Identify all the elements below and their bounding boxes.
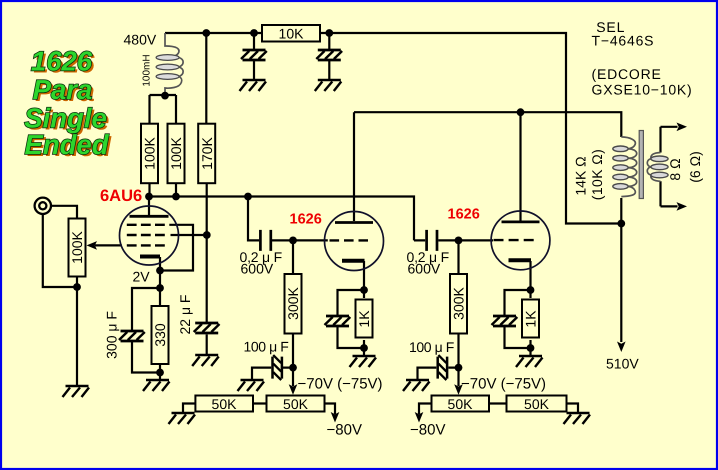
node top rail at cap1 [250,29,258,37]
ground under 22uF [192,355,219,366]
ground under 1626 no.1 cathode [350,356,377,367]
potentiometer 50K net2 left [432,396,490,412]
ground under filter cap 2 [315,80,342,91]
arrow -80V net2 [415,412,424,423]
svg-text:2V: 2V [133,269,151,285]
pot wiper arrow [87,241,98,250]
capacitor B+ filter 1 [241,50,267,60]
svg-text:510V: 510V [606,356,639,372]
svg-text:10K: 10K [279,25,305,41]
node pot bottom [73,283,81,291]
title text 1626 Para Single Ended [24,46,112,163]
wire input jack to pot [52,206,78,219]
grid g3 6AU6 [127,224,166,226]
svg-text:T−4646S: T−4646S [592,33,655,49]
tube envelope 1626 no.2 [491,211,550,270]
cathode 1626 no.1 [342,259,365,263]
capacitor 100uF bias no.1 [273,355,282,380]
ground net2 right [564,413,591,424]
resistor 100K no.1 plate load [141,124,158,184]
svg-text:−80V: −80V [327,422,362,439]
capacitor 0,2uF coupling no.2 [427,230,437,251]
node plate rail at 100K no.2 [172,193,180,201]
tube envelope 1626 no.1 [325,212,384,271]
ground under 330 [143,380,170,391]
svg-text:600V: 600V [241,261,274,277]
svg-text:8 Ω: 8 Ω [667,158,683,180]
svg-text:Ended: Ended [24,129,109,160]
wire g2 to screen node [171,234,207,236]
resistor 1K no.1 [356,300,373,338]
node dots [73,29,625,376]
node plate rail tube3 [517,108,525,116]
svg-text:(EDCORE: (EDCORE [592,66,662,82]
cathode 1626 no.2 [509,258,532,262]
svg-text:14K Ω: 14K Ω [572,156,588,195]
transformer secondary coil [647,153,668,182]
potentiometer 50K net2 right [507,396,567,412]
svg-text:300K: 300K [451,286,467,319]
ground under 1626 no.2 cathode [516,356,543,367]
ground bias cap no.1 [238,380,265,391]
arrow wiper net1 [289,384,298,395]
wire transformer secondary [661,127,678,207]
wire B+ to 510V arrow [620,198,622,342]
wire coupling cap 1 tap [248,197,259,241]
node cathode no.2 top [527,286,535,294]
svg-text:1626: 1626 [290,212,322,228]
arrow wiper net2 [454,384,463,395]
wire coupling cap 2 to grid 1626 no.2 [414,239,493,241]
wire 1626 no.2 plate stub [519,112,521,221]
svg-text:300K: 300K [285,286,301,319]
svg-text:1626: 1626 [31,46,93,77]
capacitor 1K bypass no.1 [325,316,351,326]
svg-text:480V: 480V [124,32,157,48]
wire 6AU6 cathode down [159,257,161,306]
grid 1626 no.2 [494,239,535,241]
svg-text:Para: Para [33,74,93,105]
ground net1 left [169,413,196,424]
svg-text:−80V: −80V [410,422,445,439]
svg-text:1K: 1K [523,310,539,328]
svg-text:100K: 100K [142,136,158,169]
svg-text:50K: 50K [448,396,474,412]
resistor 10K [262,25,320,42]
tube 6AU6 [120,206,179,265]
arrow 510V B+ [617,342,626,353]
wire top rail right of 10K down to transformer bottom junction [320,33,621,224]
svg-text:(6 Ω): (6 Ω) [687,151,703,182]
svg-text:330: 330 [152,323,168,347]
grid g1 6AU6 [127,244,166,246]
node cathode 2V upper [156,267,164,275]
node top rail at screen line [202,29,210,37]
svg-text:300 μ F: 300 μ F [104,311,120,359]
node bias junction no.2 [455,364,463,372]
plate pin 6AU6 [130,215,169,218]
svg-text:6AU6: 6AU6 [100,187,142,205]
capacitor 0,2uF coupling no.1 [260,230,270,251]
capacitor 100uF bias no.2 [438,355,447,380]
wire g3 tie to cathode [160,225,193,271]
grid 1626 no.1 [330,239,369,241]
node bias junction no.1 [289,364,297,372]
wire bias cap 1 connections [252,368,293,380]
cathode 6AU6 [140,255,160,259]
svg-text:(10K Ω): (10K Ω) [589,149,605,200]
svg-text:100K: 100K [168,136,184,169]
wire bias cap 2 connections [418,368,459,380]
wire wiper arrow net1 [292,368,294,386]
node plate rail at coupling tap [244,193,252,201]
node B+ transformer junction [617,220,625,228]
svg-text:1K: 1K [356,310,372,328]
svg-text:50K: 50K [283,396,309,412]
wire jack sleeve down and pot bottom to ground [43,215,77,387]
wire 330 bottom to ground [159,364,161,380]
node grid no.1 [289,237,297,245]
svg-text:170K: 170K [199,136,215,169]
node top rail at cap2 [325,29,333,37]
svg-text:100 μ F: 100 μ F [244,339,289,355]
resistor 1K no.2 [522,300,539,338]
arrow secondary bottom [677,202,688,211]
potentiometer 50K net1 right [267,396,325,412]
resistor 100K no.2 plate load [168,124,185,184]
node cathode no.1 top [360,286,368,294]
wire 6AU6 plate stub [148,197,150,216]
node choke bottom [161,92,169,100]
inductor 100mH choke [156,33,183,96]
ground under filter cap 1 [240,80,267,91]
wire cap2 ground branch [328,33,330,79]
wire screen line bottom (170K to g2 node to 22uF) [206,183,208,355]
wire 300K no.2 grid leak [457,240,459,367]
svg-text:GXSE10−10K): GXSE10−10K) [592,82,693,98]
wire 50K net2 link and ends [419,404,578,415]
ground bias cap no.2 [403,380,430,391]
wire screen line top (rail to 170K) [205,33,207,124]
wire g1 to pot wiper [95,244,122,246]
svg-text:−70V (−75V): −70V (−75V) [298,376,383,393]
node plate rail at 100K no.1 [145,193,153,201]
tube 1626 no.1 [325,212,384,271]
wire cathode bypass branch 300uF [132,288,160,373]
wire wiper arrow net2 [457,368,459,386]
node 330 bottom [156,369,164,377]
wire 300K no.1 grid leak [292,240,294,367]
tube envelope 6AU6 [120,206,179,265]
capacitor 1K bypass no.2 [492,316,518,326]
potentiometer 100K volume [69,219,86,277]
capacitor 22uF screen bypass [194,323,220,333]
plate pin 1626 no.1 [335,221,373,224]
capacitor 300uF cathode bypass [119,331,145,341]
wire grid 1626 no.1 [272,239,328,241]
wire top B+ rail [165,32,262,34]
svg-text:50K: 50K [212,396,238,412]
transformer primary coil [613,137,637,197]
wire 1626 no.1 cathode network [338,261,365,356]
wire cap1 ground branch [253,33,255,79]
wire 100K load resistor drops [150,95,177,197]
grid g2 6AU6 [127,234,166,236]
svg-text:100K: 100K [69,230,85,263]
resistor 330 cathode [152,306,169,364]
resistor 170K screen [198,124,215,184]
ground under pot [63,386,90,397]
wire 1626 no.2 cathode network [505,261,531,356]
svg-text:50K: 50K [524,396,550,412]
svg-text:1626: 1626 [448,207,480,223]
input jack [35,198,51,214]
wire plate rail of 6AU6 [149,197,414,241]
node cathode 2V lower [156,284,164,292]
node cathode no.1 bottom [360,344,368,352]
wire plate rail 1626 pair [354,112,621,221]
arrow -80V net1 [331,412,340,423]
transformer core [639,131,643,199]
resistor 300K no.1 [285,274,302,334]
plate pin 1626 no.2 [502,220,540,223]
capacitor B+ filter 2 [316,50,342,60]
svg-text:100 μ F: 100 μ F [409,339,454,355]
svg-text:600V: 600V [408,261,441,277]
node screen g2 [203,231,211,239]
svg-text:−70V (−75V): −70V (−75V) [461,376,546,393]
svg-text:22 μ F: 22 μ F [177,295,193,335]
resistor 300K no.2 [450,274,467,334]
wire 50K net1 link and ends [183,404,335,415]
tube 1626 no.2 [491,211,550,270]
svg-text:100mH: 100mH [141,54,152,86]
node grid no.2 [455,237,463,245]
node cathode no.2 bottom [527,344,535,352]
potentiometer 50K net1 left [195,396,253,412]
arrow secondary top [677,123,688,132]
